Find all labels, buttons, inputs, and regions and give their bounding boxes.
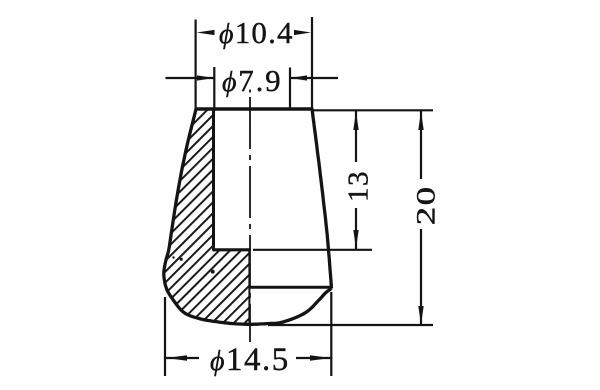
outer profile: left edge and bottom arc <box>164 109 332 324</box>
centerline <box>249 90 251 93</box>
svg-text:20: 20 <box>412 186 440 226</box>
dim 20 arrow bottom <box>418 306 423 325</box>
dim 20 arrow top <box>418 111 423 130</box>
dim phi14.5 ext left <box>164 297 166 376</box>
bottom extension line <box>268 324 433 326</box>
dim phi14.5 line right <box>296 357 331 359</box>
svg-text:13: 13 <box>343 170 375 202</box>
dim 13 line <box>355 111 357 162</box>
dim 13 arrow top <box>353 111 358 130</box>
section boundary at centerline <box>248 250 250 323</box>
hole bottom line <box>212 248 251 251</box>
sphere-cone tangent line (right half) <box>249 286 331 289</box>
scan speck dots <box>211 270 215 274</box>
dim phi10.4 arrow left <box>197 30 215 35</box>
dim phi7.9 line left <box>166 77 215 79</box>
dim phi14.5 line left <box>166 357 199 359</box>
dim phi7.9 line right <box>290 77 338 79</box>
part top edge <box>195 107 314 110</box>
dim phi10.4 ext right <box>311 17 313 109</box>
dim phi7.9 arrow left <box>197 75 214 80</box>
dim 20 line <box>420 111 422 179</box>
dim phi7.9 arrow right <box>290 75 307 80</box>
dim phi14.5 arrow right <box>310 355 331 361</box>
dim phi10.4 ext left <box>195 20 197 110</box>
svg-text:ϕ14.5: ϕ14.5 <box>210 342 290 378</box>
dim phi7.9 ext left <box>213 67 215 109</box>
dim phi14.5 ext right <box>330 292 332 376</box>
svg-text:ϕ10.4: ϕ10.4 <box>219 15 294 50</box>
dim phi7.9 ext right <box>289 68 291 110</box>
svg-text:ϕ7.9: ϕ7.9 <box>222 63 282 98</box>
outer profile: right edge <box>312 109 332 289</box>
dim 13 arrow bottom <box>353 230 358 249</box>
hole left wall <box>212 109 215 250</box>
hole bottom extension line <box>253 249 372 251</box>
dim phi14.5 arrow left <box>166 355 187 361</box>
section material (hatched region, left half) <box>164 109 250 324</box>
top extension line right <box>314 109 434 111</box>
dim phi10.4 arrow right <box>294 30 311 35</box>
